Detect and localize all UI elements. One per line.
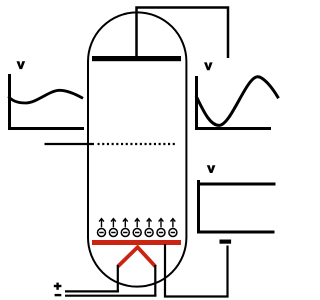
heater filament bbox=[118, 247, 156, 266]
grid (dotted) bbox=[98, 143, 176, 145]
input graph v label bbox=[17, 61, 26, 69]
minus terminal label bbox=[55, 294, 62, 296]
output waveform bbox=[196, 77, 279, 126]
electron e2 bbox=[109, 219, 117, 237]
plate supply graph v label bbox=[207, 165, 216, 173]
grid wire bbox=[45, 143, 95, 145]
input graph axes bbox=[10, 74, 85, 129]
tube envelope bbox=[88, 12, 186, 286]
plate supply time axis bbox=[197, 231, 275, 234]
electron e3 bbox=[121, 219, 129, 237]
plate supply DC level line bbox=[197, 183, 276, 186]
plate supply graph axis bbox=[197, 180, 200, 234]
anode wire bbox=[137, 8, 229, 59]
heater lead right bbox=[154, 265, 156, 297]
plus terminal label bbox=[54, 283, 62, 290]
cathode lead wire bbox=[165, 244, 228, 297]
electron e7 bbox=[169, 219, 177, 237]
heater lead left bbox=[117, 265, 119, 293]
heater supply wire - bbox=[65, 295, 156, 297]
cathode K bbox=[92, 240, 181, 245]
input waveform bbox=[9, 90, 84, 103]
output graph axes bbox=[197, 76, 272, 129]
electron e6 bbox=[157, 219, 165, 237]
electron e4 bbox=[133, 219, 141, 237]
output graph v label bbox=[204, 62, 213, 70]
electron e1 bbox=[98, 219, 106, 237]
electron e5 bbox=[145, 219, 153, 237]
anode plate bbox=[92, 56, 181, 61]
electrons with arrows bbox=[98, 219, 177, 237]
heater supply wire + bbox=[65, 290, 119, 292]
battery negative plate bbox=[220, 240, 232, 244]
